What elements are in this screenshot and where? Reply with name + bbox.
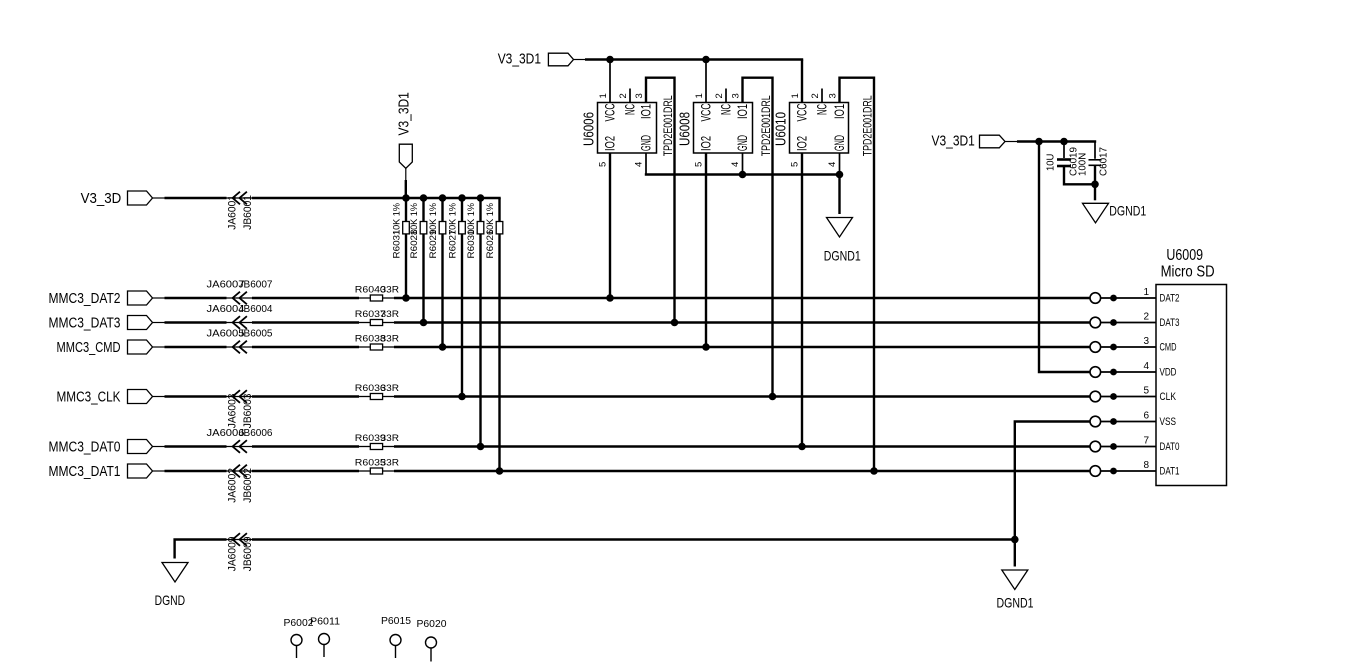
svg-text:DGND1: DGND1 bbox=[997, 595, 1034, 611]
svg-text:33R: 33R bbox=[381, 284, 400, 294]
svg-text:JB6002: JB6002 bbox=[242, 468, 254, 503]
svg-text:10K 1%: 10K 1% bbox=[428, 202, 439, 235]
svg-text:JB6004: JB6004 bbox=[239, 303, 273, 315]
svg-text:DGND1: DGND1 bbox=[824, 247, 861, 263]
svg-text:MMC3_DAT1: MMC3_DAT1 bbox=[49, 464, 121, 480]
svg-text:NC: NC bbox=[719, 104, 734, 115]
svg-text:1: 1 bbox=[790, 93, 801, 98]
svg-text:33R: 33R bbox=[381, 309, 400, 319]
svg-text:VCC: VCC bbox=[603, 103, 618, 121]
svg-text:JB6001: JB6001 bbox=[242, 195, 254, 230]
svg-text:10K 1%: 10K 1% bbox=[466, 202, 477, 235]
svg-text:JB6009: JB6009 bbox=[242, 537, 254, 572]
svg-text:4: 4 bbox=[1143, 361, 1149, 372]
svg-text:IO2: IO2 bbox=[795, 136, 810, 151]
svg-text:U6009: U6009 bbox=[1166, 247, 1203, 264]
svg-text:V3_3D1: V3_3D1 bbox=[498, 52, 541, 68]
svg-text:MMC3_CMD: MMC3_CMD bbox=[57, 340, 121, 356]
svg-text:V3_3D: V3_3D bbox=[81, 191, 122, 207]
svg-text:V3_3D1: V3_3D1 bbox=[932, 134, 975, 150]
svg-text:3: 3 bbox=[828, 93, 839, 98]
svg-text:U6008: U6008 bbox=[678, 112, 694, 146]
svg-text:TPD2E001DRL: TPD2E001DRL bbox=[861, 95, 875, 156]
svg-text:C6017: C6017 bbox=[1099, 147, 1110, 176]
svg-text:JA6009: JA6009 bbox=[227, 537, 239, 572]
svg-text:4: 4 bbox=[730, 162, 741, 167]
svg-text:TPD2E001DRL: TPD2E001DRL bbox=[759, 95, 773, 156]
svg-text:10K 1%: 10K 1% bbox=[392, 202, 403, 235]
svg-text:JB6005: JB6005 bbox=[239, 328, 273, 340]
svg-text:JA6003: JA6003 bbox=[227, 394, 239, 429]
svg-text:100N: 100N bbox=[1078, 153, 1089, 176]
svg-text:GND: GND bbox=[639, 135, 654, 151]
svg-text:7: 7 bbox=[1143, 436, 1149, 447]
svg-text:MMC3_DAT3: MMC3_DAT3 bbox=[49, 315, 121, 331]
svg-text:2: 2 bbox=[618, 93, 629, 98]
svg-text:IO1: IO1 bbox=[832, 104, 847, 119]
svg-text:33R: 33R bbox=[381, 333, 400, 343]
svg-text:P6011: P6011 bbox=[310, 616, 340, 628]
svg-text:6: 6 bbox=[1143, 411, 1149, 422]
svg-text:V3_3D1: V3_3D1 bbox=[397, 92, 413, 135]
svg-text:DAT1: DAT1 bbox=[1160, 466, 1180, 478]
svg-text:JB6003: JB6003 bbox=[242, 394, 254, 429]
svg-text:5: 5 bbox=[1143, 386, 1149, 397]
svg-text:P6015: P6015 bbox=[381, 615, 411, 627]
svg-text:DGND1: DGND1 bbox=[1109, 202, 1146, 218]
svg-text:GND: GND bbox=[832, 135, 847, 151]
svg-text:10U: 10U bbox=[1046, 154, 1057, 171]
svg-text:TPD2E001DRL: TPD2E001DRL bbox=[661, 95, 675, 156]
svg-text:10K 1%: 10K 1% bbox=[485, 202, 496, 235]
svg-text:NC: NC bbox=[815, 104, 830, 115]
svg-text:4: 4 bbox=[827, 162, 838, 167]
svg-text:VCC: VCC bbox=[795, 103, 810, 121]
svg-text:3: 3 bbox=[1143, 336, 1149, 347]
svg-text:P6020: P6020 bbox=[417, 618, 447, 630]
svg-text:DGND: DGND bbox=[155, 592, 186, 608]
svg-text:8: 8 bbox=[1143, 460, 1149, 471]
svg-text:5: 5 bbox=[790, 162, 801, 167]
svg-text:5: 5 bbox=[694, 162, 705, 167]
svg-text:U6006: U6006 bbox=[582, 112, 598, 146]
svg-text:DAT2: DAT2 bbox=[1160, 293, 1180, 305]
svg-text:5: 5 bbox=[598, 162, 609, 167]
svg-text:2: 2 bbox=[1143, 312, 1149, 323]
svg-text:JA6002: JA6002 bbox=[227, 468, 239, 503]
svg-text:VSS: VSS bbox=[1160, 416, 1177, 428]
svg-text:MMC3_DAT2: MMC3_DAT2 bbox=[49, 291, 121, 307]
svg-text:1: 1 bbox=[694, 93, 705, 98]
svg-text:JA6001: JA6001 bbox=[227, 195, 239, 230]
svg-text:10K 1%: 10K 1% bbox=[409, 202, 420, 235]
svg-text:4: 4 bbox=[634, 162, 645, 167]
svg-text:IO1: IO1 bbox=[735, 104, 750, 119]
svg-text:33R: 33R bbox=[381, 433, 400, 443]
svg-text:DAT3: DAT3 bbox=[1160, 317, 1180, 329]
svg-text:JB6007: JB6007 bbox=[239, 279, 273, 291]
svg-text:DAT0: DAT0 bbox=[1160, 441, 1180, 453]
svg-text:CLK: CLK bbox=[1160, 391, 1177, 403]
svg-text:33R: 33R bbox=[381, 457, 400, 467]
svg-text:2: 2 bbox=[810, 93, 821, 98]
svg-text:1: 1 bbox=[598, 93, 609, 98]
svg-text:3: 3 bbox=[634, 93, 645, 98]
svg-text:1: 1 bbox=[1143, 287, 1149, 298]
svg-text:IO2: IO2 bbox=[603, 136, 618, 151]
svg-text:2: 2 bbox=[714, 93, 725, 98]
svg-text:MMC3_CLK: MMC3_CLK bbox=[57, 389, 121, 405]
svg-text:VCC: VCC bbox=[699, 103, 714, 121]
svg-text:IO1: IO1 bbox=[639, 104, 654, 119]
svg-text:NC: NC bbox=[623, 104, 638, 115]
svg-text:33R: 33R bbox=[381, 383, 400, 393]
svg-text:VDD: VDD bbox=[1160, 367, 1177, 379]
svg-text:MMC3_DAT0: MMC3_DAT0 bbox=[49, 439, 121, 455]
svg-text:U6010: U6010 bbox=[774, 112, 790, 146]
svg-text:CMD: CMD bbox=[1160, 342, 1177, 354]
svg-text:10K 1%: 10K 1% bbox=[448, 202, 459, 235]
svg-text:IO2: IO2 bbox=[699, 136, 714, 151]
svg-text:Micro SD: Micro SD bbox=[1161, 264, 1215, 281]
svg-text:3: 3 bbox=[731, 93, 742, 98]
svg-text:GND: GND bbox=[735, 135, 750, 151]
